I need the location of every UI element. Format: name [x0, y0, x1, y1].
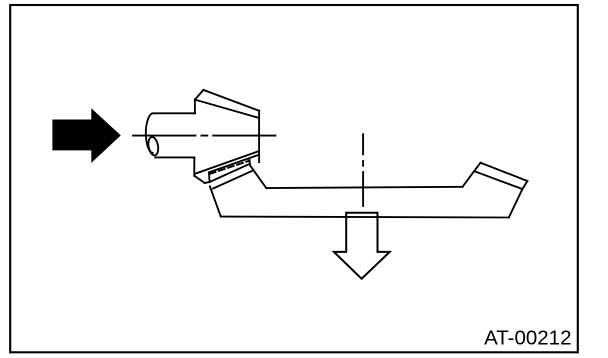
fitting right edge [258, 111, 260, 163]
boss end face [208, 172, 211, 182]
bracket bottom edge [221, 216, 509, 219]
pipe bottom line [155, 156, 194, 158]
bent tip top edge [481, 163, 528, 181]
bracket bend fold line [463, 163, 481, 187]
bracket left edge [210, 186, 221, 216]
bracket front corner edge [249, 159, 266, 188]
fitting top chamfer line [195, 100, 259, 118]
svg-text:AT-00212: AT-00212 [484, 327, 571, 350]
fitting lower step [193, 157, 195, 175]
fitting peak edge [195, 90, 204, 100]
hollow down arrow [334, 213, 390, 279]
boss hidden bore (dashed) [210, 161, 249, 174]
boss bottom side [210, 164, 249, 182]
fitting lower-left edge a [194, 176, 204, 183]
bracket top edge [266, 187, 462, 188]
clamp band line [213, 170, 253, 188]
vertical centerline [362, 134, 364, 206]
horizontal centerline [133, 135, 275, 137]
fitting bottom chamfer line [195, 151, 259, 174]
boss top side [209, 155, 258, 172]
pipe end arc [146, 113, 153, 152]
bent tip end and lower edge [509, 181, 528, 218]
fitting lower-left edge b [205, 182, 210, 183]
fitting top edge [203, 90, 259, 111]
pipe bore ellipse [147, 136, 159, 156]
pipe top line [152, 112, 195, 114]
bent tip hem line [474, 171, 522, 189]
black direction arrow [52, 108, 120, 163]
fitting upper step [194, 100, 196, 114]
